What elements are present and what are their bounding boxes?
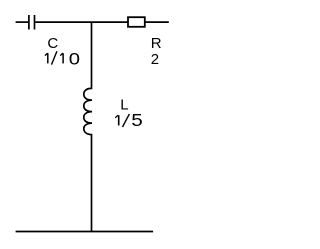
svg-text:0: 0 xyxy=(69,49,80,68)
svg-text:C: C xyxy=(47,35,58,52)
svg-text:R: R xyxy=(151,35,162,52)
svg-text:L: L xyxy=(120,97,128,114)
svg-text:2: 2 xyxy=(151,51,159,68)
svg-text:5: 5 xyxy=(131,112,143,131)
